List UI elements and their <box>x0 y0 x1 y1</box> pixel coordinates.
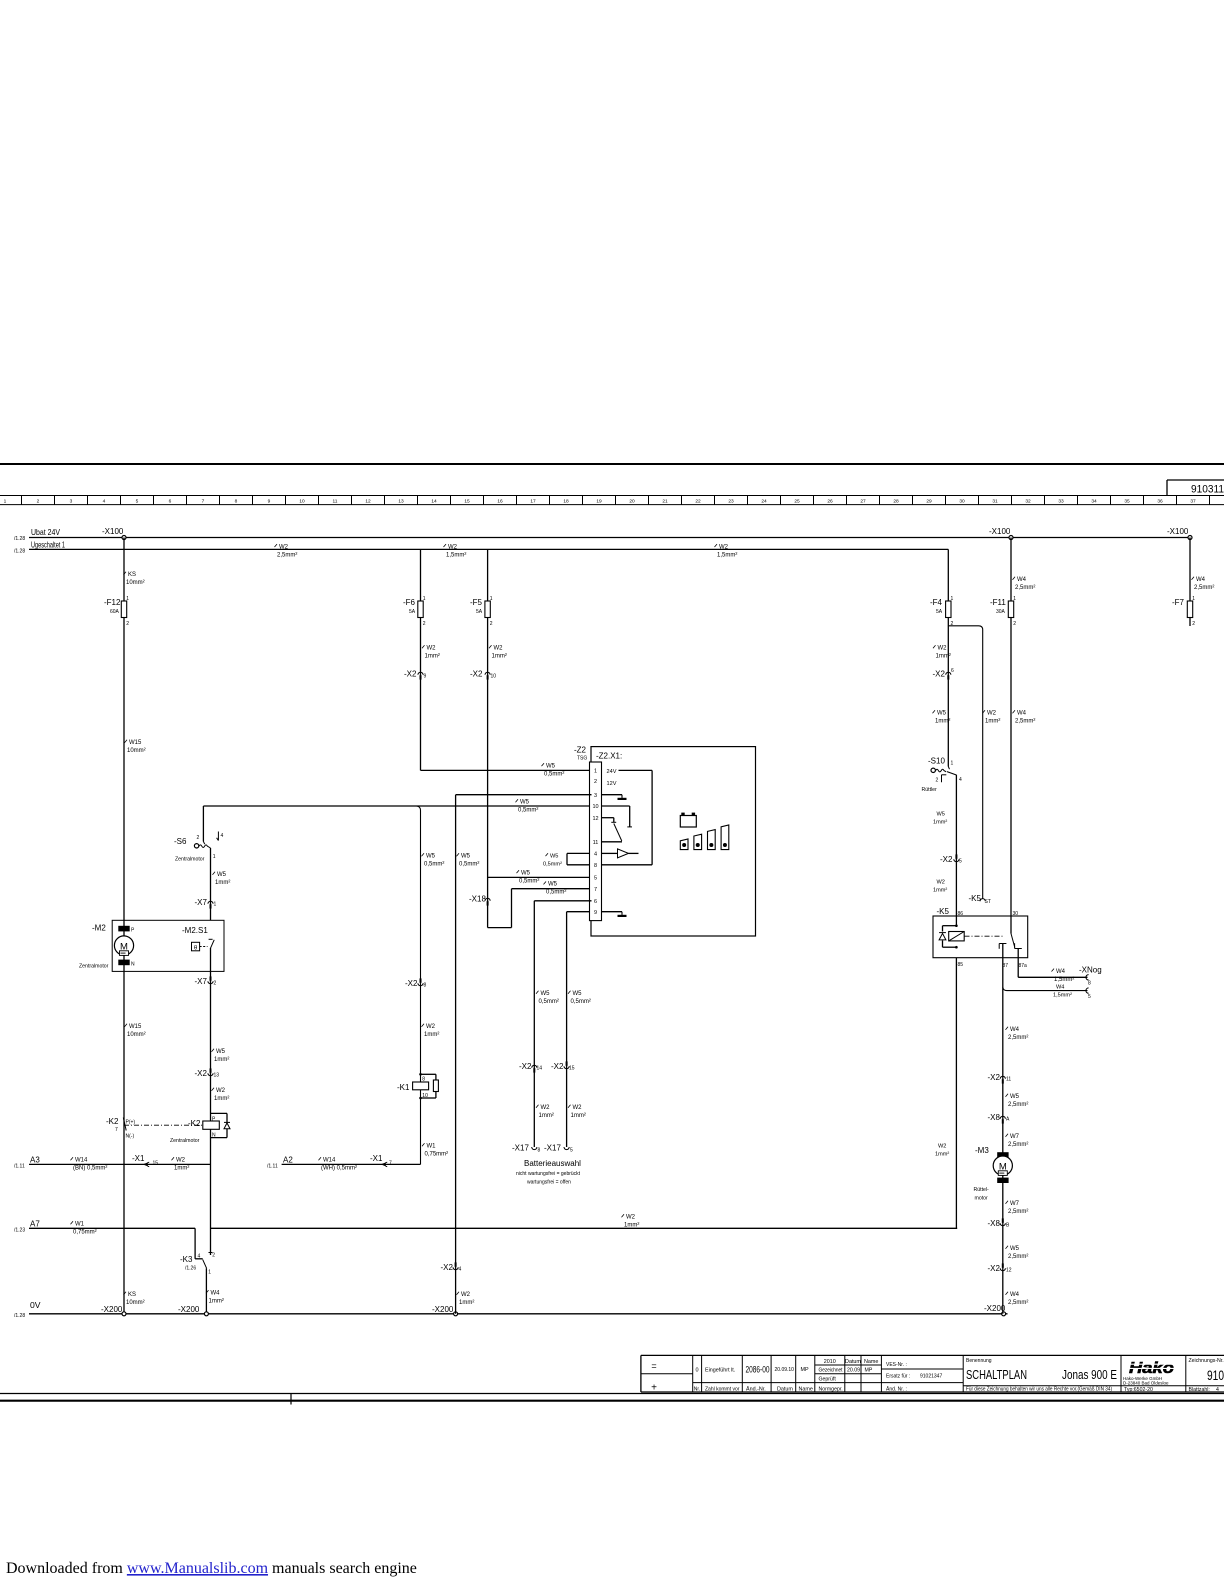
connector X2 pin 14 <box>532 1065 537 1068</box>
svg-text:2,5mm²: 2,5mm² <box>1008 1254 1028 1260</box>
svg-text:-X8: -X8 <box>988 1219 1001 1228</box>
svg-text:W5: W5 <box>461 854 471 860</box>
node X100 right <box>1188 536 1192 540</box>
connector X17 pin 8 <box>532 1147 537 1150</box>
svg-text:VES-Nr. :: VES-Nr. : <box>886 1362 907 1368</box>
svg-text:4: 4 <box>459 1267 462 1273</box>
connector X1 pin 15 <box>147 1162 149 1166</box>
svg-text:A7: A7 <box>30 1220 40 1229</box>
svg-text:Name: Name <box>799 1387 813 1393</box>
electronic unit Z2 box <box>591 747 756 936</box>
border bottom lines <box>0 1393 1224 1395</box>
svg-text:W7: W7 <box>1010 1201 1020 1207</box>
wire Z2 pin 10 line to S6 <box>203 805 591 807</box>
svg-text:1: 1 <box>1013 596 1016 602</box>
svg-text:2: 2 <box>936 778 939 784</box>
svg-text:1,5mm²: 1,5mm² <box>1054 977 1074 983</box>
svg-text:Name: Name <box>864 1359 878 1365</box>
svg-text:W14: W14 <box>323 1158 336 1164</box>
svg-text:W2: W2 <box>176 1158 186 1164</box>
svg-text:12: 12 <box>592 816 598 822</box>
svg-text:1mm²: 1mm² <box>424 1032 439 1038</box>
svg-text:1: 1 <box>126 596 129 602</box>
svg-text:Datum: Datum <box>777 1387 793 1393</box>
svg-text:-K1: -K1 <box>397 1083 410 1092</box>
svg-text:10: 10 <box>491 674 497 680</box>
svg-text:8: 8 <box>1088 981 1091 987</box>
wire F5 branch <box>487 549 489 927</box>
svg-text:Downloaded from www.Manualslib: Downloaded from www.Manualslib.com manua… <box>6 1560 417 1577</box>
wire W2 1mm2 control line (K3 to K5) <box>210 1227 957 1229</box>
wire X18 loop to Z2 pin 7 <box>488 927 512 929</box>
node X200 (K3) <box>204 1312 208 1316</box>
svg-text:-K5: -K5 <box>969 894 982 903</box>
svg-text:-X2: -X2 <box>405 979 418 988</box>
svg-text:-X2: -X2 <box>933 670 946 679</box>
svg-text:6: 6 <box>951 668 954 674</box>
svg-text:W5: W5 <box>573 991 583 997</box>
svg-text:11: 11 <box>333 499 338 505</box>
svg-text:3: 3 <box>594 793 597 799</box>
svg-text:Für diese Zeichnung behalten w: Für diese Zeichnung behalten wir uns all… <box>966 1387 1112 1393</box>
svg-text:0,5mm²: 0,5mm² <box>518 808 538 814</box>
wire Ugeschaltet 1 bus <box>29 548 948 550</box>
node X200 (ground wire) <box>454 1312 458 1316</box>
svg-text:Normgepr.: Normgepr. <box>819 1387 843 1393</box>
svg-text:wartungsfrei = offen: wartungsfrei = offen <box>527 1180 571 1186</box>
svg-text:24V: 24V <box>607 769 617 775</box>
svg-text:1: 1 <box>951 596 954 602</box>
svg-text:W5: W5 <box>541 991 551 997</box>
svg-text:1mm²: 1mm² <box>571 1113 586 1119</box>
svg-text:2: 2 <box>126 621 129 627</box>
svg-text:/1.28: /1.28 <box>14 536 25 542</box>
svg-text:1mm²: 1mm² <box>174 1166 189 1172</box>
svg-text:4: 4 <box>198 1254 201 1260</box>
svg-text:SCHALTPLAN: SCHALTPLAN <box>966 1368 1027 1382</box>
svg-text:MP: MP <box>801 1367 809 1373</box>
relay coil K5 <box>955 924 958 927</box>
fuse F12 <box>121 601 126 618</box>
connector X2 pin 12 <box>1000 1268 1005 1271</box>
connector X7 pin 2 <box>208 981 213 984</box>
wire S6 upper (from Z2 pin10 line) <box>202 806 204 842</box>
svg-text:-M2: -M2 <box>92 924 106 933</box>
svg-text:2: 2 <box>197 835 200 841</box>
svg-text:-X2: -X2 <box>988 1073 1001 1082</box>
svg-text:5: 5 <box>136 499 139 505</box>
connector X2 pin 9 <box>418 672 423 675</box>
svg-text:W2: W2 <box>938 646 948 652</box>
svg-text:Batterieauswahl: Batterieauswahl <box>524 1159 581 1168</box>
svg-text:25: 25 <box>794 499 800 505</box>
svg-text:W2: W2 <box>937 880 945 886</box>
motor M2 box <box>112 920 224 971</box>
svg-text:2: 2 <box>37 499 40 505</box>
connector X8 pin A <box>1000 1116 1005 1119</box>
svg-text:-X2: -X2 <box>988 1264 1001 1273</box>
svg-text:15: 15 <box>569 1066 575 1072</box>
svg-text:MP: MP <box>865 1368 873 1374</box>
connector X2 pin 8 <box>418 983 423 986</box>
svg-text:2086-00: 2086-00 <box>746 1365 770 1375</box>
svg-text:W2: W2 <box>461 1292 471 1298</box>
svg-text:-X2: -X2 <box>441 1263 454 1272</box>
svg-text:9: 9 <box>424 674 427 680</box>
svg-text:-X17: -X17 <box>512 1144 529 1153</box>
svg-text:W1: W1 <box>75 1222 85 1228</box>
svg-text:13: 13 <box>398 499 404 505</box>
svg-text:1mm²: 1mm² <box>935 719 950 725</box>
svg-text:-K5: -K5 <box>937 907 950 916</box>
svg-text:13: 13 <box>214 1073 220 1079</box>
connector X2 pin 4 <box>453 1267 458 1270</box>
svg-text:2: 2 <box>214 981 217 987</box>
svg-text:5: 5 <box>570 1148 573 1154</box>
battery icon in Z2 <box>680 816 696 828</box>
svg-text:-X2: -X2 <box>195 1069 208 1078</box>
mechanical link K5 coil to contact <box>965 935 1005 937</box>
svg-text:1mm²: 1mm² <box>936 654 951 660</box>
motor M2 <box>118 926 129 932</box>
svg-text:Änd. Nr. :: Änd. Nr. : <box>886 1385 907 1392</box>
svg-text:15: 15 <box>153 1161 159 1167</box>
svg-text:W5: W5 <box>937 812 945 818</box>
svg-text:16: 16 <box>497 499 503 505</box>
Z2 pin 10 internal contact wire <box>602 805 630 807</box>
wire F6 branch <box>420 549 422 770</box>
svg-text:0,5mm²: 0,5mm² <box>459 862 479 868</box>
svg-text:-F11: -F11 <box>990 598 1006 607</box>
svg-text:/1.26: /1.26 <box>185 1266 196 1272</box>
svg-text:-X17: -X17 <box>544 1144 561 1153</box>
svg-text:2,5mm²: 2,5mm² <box>1008 1300 1028 1306</box>
svg-text:8: 8 <box>424 983 427 989</box>
Z2 pin 4 comparator <box>602 852 618 854</box>
svg-text:=: = <box>651 1361 656 1371</box>
svg-text:-M3: -M3 <box>975 1146 989 1155</box>
svg-text:2: 2 <box>1192 621 1195 627</box>
connector X2 pin 5 <box>954 859 959 862</box>
svg-text:A: A <box>1006 1117 1010 1123</box>
svg-text:4: 4 <box>221 833 224 839</box>
svg-text:7: 7 <box>115 1127 118 1133</box>
svg-text:W15: W15 <box>129 1024 142 1030</box>
svg-text:85: 85 <box>958 962 964 968</box>
svg-text:/1.28: /1.28 <box>14 549 25 555</box>
contact K2 on motor wire <box>123 1118 126 1131</box>
svg-text:-M2.S1: -M2.S1 <box>182 926 208 935</box>
title block <box>641 1354 1224 1356</box>
wire F7 branch <box>1189 538 1191 627</box>
svg-text:-X200: -X200 <box>101 1305 123 1314</box>
svg-text:2,5mm²: 2,5mm² <box>1008 1142 1028 1148</box>
svg-text:Änd.-Nr.: Änd.-Nr. <box>746 1386 766 1393</box>
svg-text:Nr.: Nr. <box>694 1387 700 1393</box>
svg-text:4: 4 <box>959 777 962 783</box>
svg-text:-X100: -X100 <box>1167 527 1189 536</box>
svg-text:2,5mm²: 2,5mm² <box>1015 585 1035 591</box>
svg-text:11: 11 <box>593 840 599 846</box>
svg-text:W2: W2 <box>626 1215 636 1221</box>
wire K5 pin 87a to XNog 8 <box>1017 958 1019 978</box>
svg-text:W4: W4 <box>1196 577 1206 583</box>
svg-text:W5: W5 <box>1010 1246 1020 1252</box>
svg-text:W4: W4 <box>211 1291 221 1297</box>
svg-text:P(+): P(+) <box>126 1120 136 1126</box>
svg-text:W5: W5 <box>426 854 436 860</box>
svg-text:0,5mm²: 0,5mm² <box>543 861 562 867</box>
svg-text:15: 15 <box>464 499 470 505</box>
svg-text:91021347: 91021347 <box>920 1374 942 1380</box>
svg-text:29: 29 <box>926 499 932 505</box>
svg-text:12: 12 <box>1006 1268 1012 1274</box>
relay K5 box <box>933 916 1028 958</box>
svg-text:-F12: -F12 <box>104 598 121 607</box>
svg-text:0,5mm²: 0,5mm² <box>519 878 539 884</box>
svg-text:2: 2 <box>490 621 493 627</box>
svg-text:W5: W5 <box>216 1049 226 1055</box>
svg-text:1,5mm²: 1,5mm² <box>1053 992 1072 998</box>
svg-text:2,5mm²: 2,5mm² <box>1008 1035 1028 1041</box>
node X200 (M3) <box>1002 1312 1006 1316</box>
connector X18 <box>485 898 490 901</box>
Z2 pin 3 internal ground <box>602 794 623 796</box>
wire Ubat 24V bus <box>29 537 1190 539</box>
svg-text:-X200: -X200 <box>432 1305 454 1314</box>
connector X17 pin 5 <box>564 1147 569 1150</box>
svg-text:-S6: -S6 <box>174 837 187 846</box>
svg-text:1: 1 <box>208 1270 211 1276</box>
svg-text:-X2: -X2 <box>940 855 953 864</box>
connector X7 pin 1 <box>208 901 213 904</box>
svg-text:motor: motor <box>975 1196 989 1202</box>
svg-text:KS: KS <box>128 572 136 578</box>
svg-text:-XNog: -XNog <box>1079 966 1102 975</box>
svg-text:-X2: -X2 <box>551 1062 564 1071</box>
svg-text:2: 2 <box>212 1253 215 1259</box>
svg-text:5A: 5A <box>409 609 416 615</box>
svg-text:33: 33 <box>1058 499 1064 505</box>
svg-text:12: 12 <box>365 499 371 505</box>
svg-text:W2: W2 <box>938 1144 946 1150</box>
svg-text:1mm²: 1mm² <box>985 719 1000 725</box>
svg-text:-S10: -S10 <box>928 757 945 766</box>
svg-text:5A: 5A <box>476 609 483 615</box>
wire Z2 pin 5 line <box>488 876 592 878</box>
svg-text:2010: 2010 <box>824 1359 836 1365</box>
switch K3 <box>194 1228 196 1259</box>
wire S6 to X7:1 <box>210 848 212 920</box>
svg-text:+: + <box>651 1383 657 1394</box>
svg-text:1: 1 <box>423 596 426 602</box>
svg-text:2,5mm²: 2,5mm² <box>1008 1102 1028 1108</box>
svg-text:7: 7 <box>202 499 205 505</box>
svg-text:34: 34 <box>1091 499 1097 505</box>
svg-text:1mm²: 1mm² <box>215 880 230 886</box>
svg-text:W2: W2 <box>216 1088 226 1094</box>
connector X1 pin 7 <box>385 1162 387 1166</box>
svg-text:Benennung: Benennung <box>966 1358 992 1364</box>
svg-text:Rüttel-: Rüttel- <box>974 1187 990 1193</box>
svg-text:N(-): N(-) <box>126 1134 135 1140</box>
svg-text:/1.11: /1.11 <box>14 1164 25 1170</box>
svg-text:9: 9 <box>594 910 597 916</box>
svg-text:Ugeschaltet 1: Ugeschaltet 1 <box>31 540 65 550</box>
svg-text:87a: 87a <box>1019 963 1028 969</box>
wire K3 to X200 <box>205 1268 207 1314</box>
svg-text:-Z2.X1:: -Z2.X1: <box>596 752 622 761</box>
svg-text:W5: W5 <box>937 711 947 717</box>
fuse F4 <box>946 601 951 618</box>
svg-text:-X7: -X7 <box>195 977 208 986</box>
svg-text:1: 1 <box>4 499 7 505</box>
svg-text:10mm²: 10mm² <box>127 748 146 754</box>
drawing number box 910311 <box>1167 479 1224 481</box>
svg-text:Gezeichnet: Gezeichnet <box>819 1368 844 1374</box>
svg-text:60A: 60A <box>110 609 120 615</box>
svg-text:37: 37 <box>1190 499 1196 505</box>
svg-text:Eingeführt lt.: Eingeführt lt. <box>705 1368 735 1374</box>
svg-text:W15: W15 <box>129 740 142 746</box>
svg-text:-X2: -X2 <box>470 670 483 679</box>
svg-text:W4: W4 <box>1056 969 1066 975</box>
svg-text:1mm²: 1mm² <box>539 1113 554 1119</box>
fuse F6 <box>418 601 423 618</box>
svg-text:11: 11 <box>1006 1077 1011 1083</box>
wire K1 branch down <box>417 806 421 1164</box>
svg-text:1: 1 <box>594 769 597 775</box>
svg-text:35: 35 <box>1124 499 1130 505</box>
svg-text:W2: W2 <box>987 711 997 717</box>
svg-text:2,5mm²: 2,5mm² <box>1008 1209 1028 1215</box>
svg-text:W5: W5 <box>1010 1094 1020 1100</box>
svg-text:7: 7 <box>389 1161 392 1167</box>
svg-text:30: 30 <box>959 499 965 505</box>
svg-text:Zahl kommt vor: Zahl kommt vor <box>705 1387 740 1393</box>
svg-text:10: 10 <box>592 804 598 810</box>
svg-text:1mm²: 1mm² <box>425 654 440 660</box>
svg-text:KS: KS <box>128 1292 136 1298</box>
svg-text:5: 5 <box>594 876 597 882</box>
svg-text:14: 14 <box>537 1066 543 1072</box>
svg-text:0,5mm²: 0,5mm² <box>571 999 591 1005</box>
svg-text:22: 22 <box>695 499 701 505</box>
Z2 pin 12 internal contact <box>602 817 614 819</box>
svg-text:W2: W2 <box>279 544 289 550</box>
relay coil K1 <box>419 1073 422 1076</box>
svg-text:5A: 5A <box>936 609 943 615</box>
svg-text:Zentralmotor: Zentralmotor <box>79 964 109 970</box>
svg-text:N: N <box>131 962 135 968</box>
svg-text:2,5mm²: 2,5mm² <box>1194 585 1214 591</box>
svg-text:14: 14 <box>431 499 437 505</box>
wire Z2 pin 6 to X17:8 <box>534 900 591 902</box>
svg-text:W2: W2 <box>494 646 504 652</box>
svg-text:10mm²: 10mm² <box>126 580 145 586</box>
svg-text:5: 5 <box>959 859 962 865</box>
svg-text:1: 1 <box>1192 596 1195 602</box>
svg-text:2,5mm²: 2,5mm² <box>1015 719 1035 725</box>
svg-text:W4: W4 <box>1056 984 1064 990</box>
svg-text:Ubat 24V: Ubat 24V <box>31 527 60 537</box>
svg-text:18: 18 <box>563 499 569 505</box>
diode across K2 coil <box>211 1112 228 1114</box>
svg-text:1mm²: 1mm² <box>933 888 947 894</box>
diode across K5 coil <box>943 925 957 927</box>
svg-text:TSG: TSG <box>577 756 587 762</box>
svg-text:17: 17 <box>530 499 536 505</box>
svg-text:W5: W5 <box>521 870 531 876</box>
svg-text:W14: W14 <box>75 1158 88 1164</box>
border top line <box>0 463 1224 465</box>
svg-text:B: B <box>1006 1223 1010 1229</box>
svg-text:W2: W2 <box>448 544 458 550</box>
svg-text:/1.11: /1.11 <box>267 1164 278 1170</box>
battery level bars icon <box>680 839 688 850</box>
svg-text:1mm²: 1mm² <box>935 1152 949 1158</box>
svg-text:7: 7 <box>594 887 597 893</box>
svg-text:2: 2 <box>1013 621 1016 627</box>
svg-text:30: 30 <box>1013 911 1019 917</box>
wire loop Z2 pins 4-8 external <box>567 852 590 854</box>
svg-text:9: 9 <box>268 499 271 505</box>
svg-text:5: 5 <box>1088 994 1091 1000</box>
svg-text:/1.28: /1.28 <box>14 1313 25 1319</box>
svg-text:86: 86 <box>958 911 964 917</box>
svg-text:Ersatz für :: Ersatz für : <box>886 1374 910 1380</box>
connector X2 pin 6 <box>946 672 951 675</box>
svg-text:1: 1 <box>214 902 217 908</box>
svg-text:nicht wartungsfrei = gebrückt: nicht wartungsfrei = gebrückt <box>516 1171 581 1177</box>
svg-text:W1: W1 <box>427 1144 437 1150</box>
svg-text:32: 32 <box>1025 499 1031 505</box>
mechanical link K2 contact to coil <box>124 1124 203 1126</box>
svg-text:1mm²: 1mm² <box>459 1300 474 1306</box>
Z2 pin 11 internal wire <box>602 841 623 843</box>
wire Z2 pin 9 to X17:5 <box>567 911 590 913</box>
fuse F5 <box>485 601 490 618</box>
svg-text:20: 20 <box>629 499 635 505</box>
svg-text:W4: W4 <box>1010 1292 1020 1298</box>
svg-text:-X100: -X100 <box>102 527 124 536</box>
ruler scale band <box>0 495 1224 497</box>
fuse F11 <box>1008 601 1013 618</box>
wire F4 branch <box>947 549 949 766</box>
svg-text:-F4: -F4 <box>930 598 943 607</box>
svg-text:A3: A3 <box>30 1156 40 1165</box>
svg-text:W5: W5 <box>217 872 227 878</box>
svg-text:/1.23: /1.23 <box>14 1228 25 1234</box>
connector X8 pin B <box>1000 1223 1005 1226</box>
wire 0V bus <box>29 1313 1008 1315</box>
svg-text:36: 36 <box>1157 499 1163 505</box>
svg-text:8: 8 <box>594 863 597 869</box>
svg-text:1: 1 <box>213 854 216 860</box>
svg-text:W4: W4 <box>1017 711 1027 717</box>
svg-text:1,5mm²: 1,5mm² <box>717 552 737 558</box>
wire Z2 pin 3 to X200 (ground) <box>456 794 592 796</box>
svg-text:W4: W4 <box>1017 577 1027 583</box>
svg-text:0: 0 <box>695 1368 698 1374</box>
svg-text:-K2: -K2 <box>188 1119 201 1128</box>
svg-text:8: 8 <box>235 499 238 505</box>
wire M2 to 0V bus <box>123 955 125 1314</box>
fuse F7 <box>1187 601 1192 618</box>
svg-text:1mm²: 1mm² <box>209 1299 224 1305</box>
wire A3 line <box>29 1163 211 1165</box>
svg-text:D-23840 Bad Oldesloe: D-23840 Bad Oldesloe <box>1123 1381 1169 1386</box>
